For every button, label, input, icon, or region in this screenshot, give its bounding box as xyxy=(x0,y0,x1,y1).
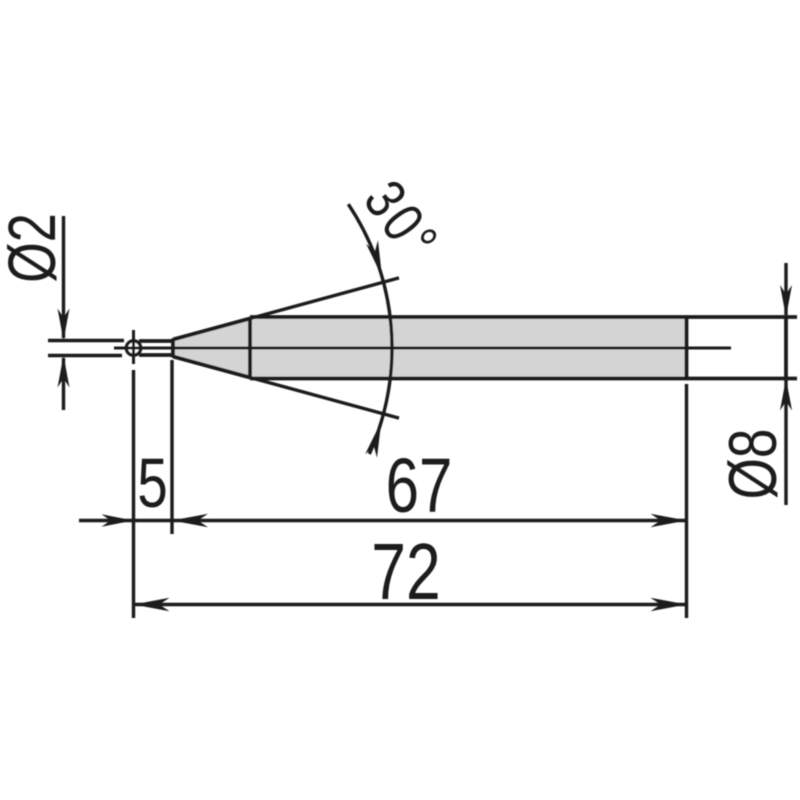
label Ø2 xyxy=(0,213,69,283)
extension line at cone apex (5 / 67 dims) xyxy=(170,360,173,534)
svg-text:Ø2: Ø2 xyxy=(0,213,69,283)
svg-text:67: 67 xyxy=(386,442,453,529)
rear stem section (white) xyxy=(687,317,798,379)
angle dimension arc 30° xyxy=(348,204,392,458)
dimension Ø2 line and arrows xyxy=(58,216,70,410)
dimension Ø8 line and arrows xyxy=(780,263,792,505)
shank cylinder Ø8 (gray) xyxy=(250,317,687,379)
extension line at shank right end (67 / 72 dims) xyxy=(685,384,688,618)
extension line from ball center down (5 / 72 dims) xyxy=(132,370,135,618)
label 72 xyxy=(371,528,440,617)
svg-text:Ø8: Ø8 xyxy=(715,429,791,500)
ball center mark vertical xyxy=(132,330,135,364)
cone (30 deg taper, gray) xyxy=(173,317,250,379)
label Ø8 xyxy=(715,429,791,500)
cone slant extension lines xyxy=(250,278,399,418)
ball tangent extension lines (Ø2) xyxy=(48,341,124,356)
dimension line 5 / 67 xyxy=(79,514,687,528)
label 67 xyxy=(386,442,453,529)
ball tip Ø2 xyxy=(126,341,140,355)
svg-text:5: 5 xyxy=(137,445,167,523)
centerline xyxy=(114,347,731,350)
label 30° xyxy=(351,169,452,274)
svg-text:72: 72 xyxy=(371,528,440,617)
stylus stem xyxy=(139,341,173,355)
dimension line 72 xyxy=(134,598,687,612)
label 5 xyxy=(137,445,167,523)
